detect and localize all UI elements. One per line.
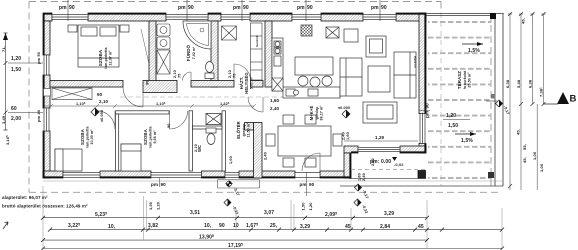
svg-text:lam.parketta: lam.parketta <box>149 126 153 147</box>
svg-text:1,50: 1,50 <box>448 123 458 129</box>
svg-text:90: 90 <box>381 5 387 11</box>
terrace edge right <box>495 14 503 187</box>
wall bottom <box>43 171 351 178</box>
partition V4 <box>116 114 119 171</box>
svg-text:3,07: 3,07 <box>264 210 274 216</box>
svg-text:25,50 m²: 25,50 m² <box>468 72 472 88</box>
window dim rotated pair left <box>148 202 313 210</box>
kitchen island <box>295 57 333 75</box>
svg-text:1,80: 1,80 <box>358 173 362 181</box>
window W5 top <box>363 15 396 20</box>
svg-text:10,00 m²: 10,00 m² <box>90 129 94 145</box>
svg-text:pm: pm <box>300 182 307 187</box>
svg-text:Gardrób: Gardrób <box>255 35 259 47</box>
svg-text:6,38: 6,38 <box>528 79 533 88</box>
svg-text:45,: 45, <box>522 157 527 163</box>
wall V6 dining <box>254 123 263 179</box>
svg-text:90: 90 <box>161 182 167 187</box>
svg-text:10,: 10, <box>204 223 212 229</box>
porch door dim flecks <box>358 158 376 181</box>
svg-text:1,60: 1,60 <box>229 156 233 164</box>
window bottom W-B1 <box>63 173 320 178</box>
svg-text:55,: 55, <box>522 144 527 150</box>
fireplace box <box>326 27 339 38</box>
armchair living <box>366 36 386 57</box>
door arc HAZT <box>234 64 251 81</box>
svg-text:3,29: 3,29 <box>300 224 310 230</box>
slope arrow bottom <box>455 132 476 144</box>
room label FURDO <box>186 44 196 61</box>
terrace post bottom-right <box>488 172 494 178</box>
svg-text:1,50: 1,50 <box>11 67 21 73</box>
foyer door arc <box>248 97 263 112</box>
coffee table <box>368 66 390 92</box>
svg-text:lam.parketta: lam.parketta <box>104 47 108 68</box>
svg-text:1,20: 1,20 <box>156 202 161 210</box>
bath cabinet column <box>157 24 170 74</box>
entry door swing <box>302 153 320 171</box>
interior wall H2 seg4 <box>251 81 264 88</box>
svg-text:1,5%: 1,5% <box>468 48 480 54</box>
svg-text:SZOBA: SZOBA <box>80 128 85 145</box>
svg-text:90: 90 <box>167 124 171 128</box>
niche left wall <box>44 89 51 97</box>
wall left <box>43 21 50 178</box>
extension lines <box>43 186 502 249</box>
svg-text:1,50: 1,50 <box>301 203 306 211</box>
svg-text:2,40: 2,40 <box>342 132 346 140</box>
kitchen counter vertical <box>272 38 283 91</box>
svg-text:1,20: 1,20 <box>446 113 456 119</box>
svg-text:alapterület: 96,07 m²: alapterület: 96,07 m² <box>2 195 48 200</box>
corner cabinet X <box>272 78 283 91</box>
svg-text:pm 40: pm 40 <box>36 109 41 122</box>
slope arrow top <box>462 42 483 54</box>
svg-text:90: 90 <box>219 223 225 229</box>
door dim labels rotated <box>146 70 351 152</box>
bed double SZOBA1 <box>78 25 119 67</box>
window W1 top <box>52 15 396 20</box>
svg-text:2,40: 2,40 <box>270 106 280 111</box>
mini labels <box>229 152 268 164</box>
svg-text:5,01 m²: 5,01 m² <box>250 76 254 89</box>
label TERASZ <box>457 70 472 89</box>
svg-text:TERASZ: TERASZ <box>457 71 462 89</box>
window W4 top <box>292 15 321 20</box>
svg-text:B: B <box>570 94 577 105</box>
step edge bottom <box>340 185 503 187</box>
level marker living <box>338 106 350 118</box>
left dim column <box>8 56 43 122</box>
label ELOTER <box>236 121 251 139</box>
bed SZOBA3 <box>121 144 141 171</box>
terrace post top-right <box>490 13 496 19</box>
svg-text:45: 45 <box>345 224 351 230</box>
window left W-L2 <box>44 108 49 131</box>
section marker B <box>543 92 577 105</box>
svg-text:90: 90 <box>188 5 194 11</box>
svg-text:3,51: 3,51 <box>190 210 200 216</box>
spot level right <box>496 100 511 115</box>
sofa right <box>394 52 416 98</box>
spot level -0,17 <box>355 184 370 199</box>
svg-text:ELŐTÉR: ELŐTÉR <box>236 121 241 139</box>
porch dashed <box>351 169 426 171</box>
svg-text:pm: pm <box>178 5 186 11</box>
dining table <box>266 115 342 167</box>
window left W-L1 <box>44 55 49 131</box>
WC window bottom <box>225 173 239 178</box>
svg-text:1,00: 1,00 <box>539 163 544 172</box>
shaft box <box>206 114 221 125</box>
interior wall V3 <box>265 21 272 87</box>
svg-text:M+K+É: M+K+É <box>309 106 314 121</box>
svg-text:60: 60 <box>11 106 17 112</box>
dim row3 <box>43 239 427 241</box>
door arc SZOBA2 <box>97 111 115 129</box>
dim row2 <box>50 229 502 231</box>
interior wall H2 seg3 <box>191 81 234 88</box>
svg-text:45: 45 <box>418 224 424 230</box>
svg-text:5,48: 5,48 <box>516 79 521 88</box>
svg-text:12,07 m²: 12,07 m² <box>109 50 113 66</box>
wall top <box>43 13 426 21</box>
right dim top ticks <box>508 12 546 188</box>
terrace dims 1,20 1,50 <box>443 113 470 129</box>
svg-text:1,60: 1,60 <box>270 98 280 103</box>
svg-text:90: 90 <box>97 92 103 97</box>
svg-text:mobilfal: mobilfal <box>413 56 417 68</box>
partition H3 <box>116 111 170 114</box>
perimeter heavy outline <box>43 13 426 178</box>
window W3 top <box>221 15 250 20</box>
svg-text:2,84: 2,84 <box>380 224 390 230</box>
svg-text:pm 90: pm 90 <box>36 51 41 64</box>
interior wall V2 <box>211 21 218 87</box>
svg-text:75: 75 <box>233 74 237 78</box>
room label SZOBA2 <box>80 126 94 147</box>
svg-text:17,195: 17,195 <box>228 243 243 250</box>
svg-text:1,29: 1,29 <box>375 135 385 140</box>
wall V6 stub <box>245 123 254 131</box>
nightstand left <box>68 25 77 32</box>
porch column <box>418 171 426 179</box>
svg-text:3,29: 3,29 <box>384 211 394 217</box>
room label SZOBA3 <box>143 126 157 147</box>
benchmark symbol <box>225 180 240 197</box>
svg-text:FÜRDŐ: FÜRDŐ <box>186 44 191 61</box>
svg-text:pm: pm <box>233 5 241 11</box>
svg-text:2,40: 2,40 <box>264 152 268 160</box>
svg-text:45,: 45, <box>521 18 526 24</box>
roof edge dashed over terrace <box>440 13 442 186</box>
sofa left <box>340 58 362 96</box>
corridor wardrobe <box>52 88 92 100</box>
svg-text:±0.000: ±0.000 <box>338 106 350 110</box>
dim ticks <box>41 216 504 250</box>
toilet WC <box>206 128 216 145</box>
room label HAZT <box>239 72 254 94</box>
svg-text:1,5%: 1,5% <box>461 138 473 144</box>
rear landing <box>218 180 260 189</box>
WC walls <box>193 126 223 129</box>
bench mark bottom left <box>3 222 8 229</box>
porch slab edge <box>349 178 426 180</box>
right wall pm90 rotated <box>425 103 430 118</box>
interior wall H2 seg2 thick <box>143 81 177 93</box>
wall right <box>419 13 426 153</box>
partition V5 foyer <box>189 111 193 171</box>
svg-text:90: 90 <box>69 5 75 11</box>
interior wall H2 seg1 <box>50 81 123 88</box>
svg-text:7,02 m²: 7,02 m² <box>192 46 196 59</box>
svg-text:13,905: 13,905 <box>199 234 214 241</box>
svg-text:greslap: greslap <box>315 107 319 120</box>
door arc FURDO <box>183 72 192 81</box>
svg-text:2,10: 2,10 <box>194 144 198 152</box>
svg-text:11,50 m²: 11,50 m² <box>247 122 251 138</box>
svg-text:greslap: greslap <box>242 124 246 137</box>
svg-text:SZOBA: SZOBA <box>98 49 103 66</box>
svg-text:HELYISÉG: HELYISÉG <box>244 72 249 94</box>
door arc SZOBA3 <box>170 111 188 129</box>
stools <box>298 76 332 87</box>
svg-text:1,20: 1,20 <box>308 203 313 211</box>
stove checkered <box>301 25 312 36</box>
sofa bottom <box>363 102 397 123</box>
terrace edge top <box>426 14 504 17</box>
entry door bottom <box>295 173 320 178</box>
spot level -0,32 <box>354 199 369 214</box>
terrace mid post <box>491 94 496 99</box>
spot level rear -0,32 <box>224 199 239 215</box>
svg-text:pm: pm <box>297 5 305 11</box>
svg-text:±0.000: ±0.000 <box>100 110 104 122</box>
pavement line bottom <box>43 180 503 182</box>
wardrobe diagonal <box>141 29 149 64</box>
door arc SZOBA1 <box>123 87 143 107</box>
svg-text:1,00: 1,00 <box>532 151 537 160</box>
top pm90 labels <box>59 0 387 21</box>
svg-text:pm: 0.00: pm: 0.00 <box>370 159 391 165</box>
svg-text:2,10: 2,10 <box>173 70 177 78</box>
window bottom W-B2 <box>151 173 202 178</box>
svg-text:2,00: 2,00 <box>11 116 21 122</box>
terrace deck dashed lines <box>428 22 492 178</box>
utility cabinet <box>251 23 263 80</box>
svg-text:90: 90 <box>243 5 249 11</box>
kitchen counter horizontal <box>283 87 340 98</box>
svg-text:2,10: 2,10 <box>99 99 109 104</box>
svg-text:2,10: 2,10 <box>228 70 232 78</box>
svg-text:pm: pm <box>151 182 158 187</box>
svg-text:lam.parketta: lam.parketta <box>86 126 90 147</box>
svg-text:90: 90 <box>146 81 150 85</box>
svg-text:45,: 45, <box>516 129 521 135</box>
nightstand right <box>120 25 129 32</box>
porch glass door <box>358 148 400 152</box>
svg-text:6,38: 6,38 <box>505 79 510 88</box>
interior wall V1 <box>149 21 156 87</box>
svg-text:90: 90 <box>309 182 315 187</box>
dim row4 <box>43 248 502 250</box>
room label SZOBA1 <box>98 47 113 68</box>
open boundary dashed <box>120 96 344 98</box>
svg-text:2,40: 2,40 <box>362 173 366 181</box>
right dim lines <box>508 14 546 190</box>
bottom pm labels <box>151 182 315 187</box>
svg-text:9,56 m²: 9,56 m² <box>153 130 157 144</box>
roof outline dashed <box>29 2 502 193</box>
svg-text:bruttó alapterület összesen: 1: bruttó alapterület összesen: 126,49 m² <box>2 203 88 208</box>
svg-text:fa burkolat: fa burkolat <box>463 70 467 89</box>
beds SZOBA2 <box>55 149 82 171</box>
svg-text:pm: pm <box>371 5 379 11</box>
svg-text:SZOBA: SZOBA <box>143 128 148 145</box>
bathtub corner <box>183 21 211 49</box>
interior dim texts <box>97 92 385 140</box>
level marker corridor <box>91 108 104 122</box>
svg-text:90: 90 <box>307 5 313 11</box>
svg-text:1,50: 1,50 <box>148 202 153 210</box>
window W2 top <box>166 15 208 20</box>
tv stand <box>344 29 358 42</box>
svg-text:pm: pm <box>59 5 67 11</box>
svg-text:-0,02: -0,02 <box>394 162 404 167</box>
svg-text:25,: 25, <box>270 223 278 229</box>
porch corner wall <box>344 146 426 178</box>
utility appliances <box>222 26 237 40</box>
svg-text:75: 75 <box>178 74 182 78</box>
svg-text:1,20: 1,20 <box>11 56 21 62</box>
partition WC right <box>222 111 226 171</box>
window right glass <box>420 114 425 144</box>
area text <box>2 195 88 209</box>
svg-text:10,: 10, <box>108 224 116 230</box>
label MKE <box>309 105 324 121</box>
corridor dim line <box>44 104 256 108</box>
dim row1 <box>43 217 427 219</box>
toilet FURDO <box>205 62 214 79</box>
svg-text:pm: pm <box>425 111 430 118</box>
svg-text:90: 90 <box>425 103 430 109</box>
svg-text:1,60: 1,60 <box>346 132 350 140</box>
svg-text:38,17 m²: 38,17 m² <box>320 105 324 121</box>
